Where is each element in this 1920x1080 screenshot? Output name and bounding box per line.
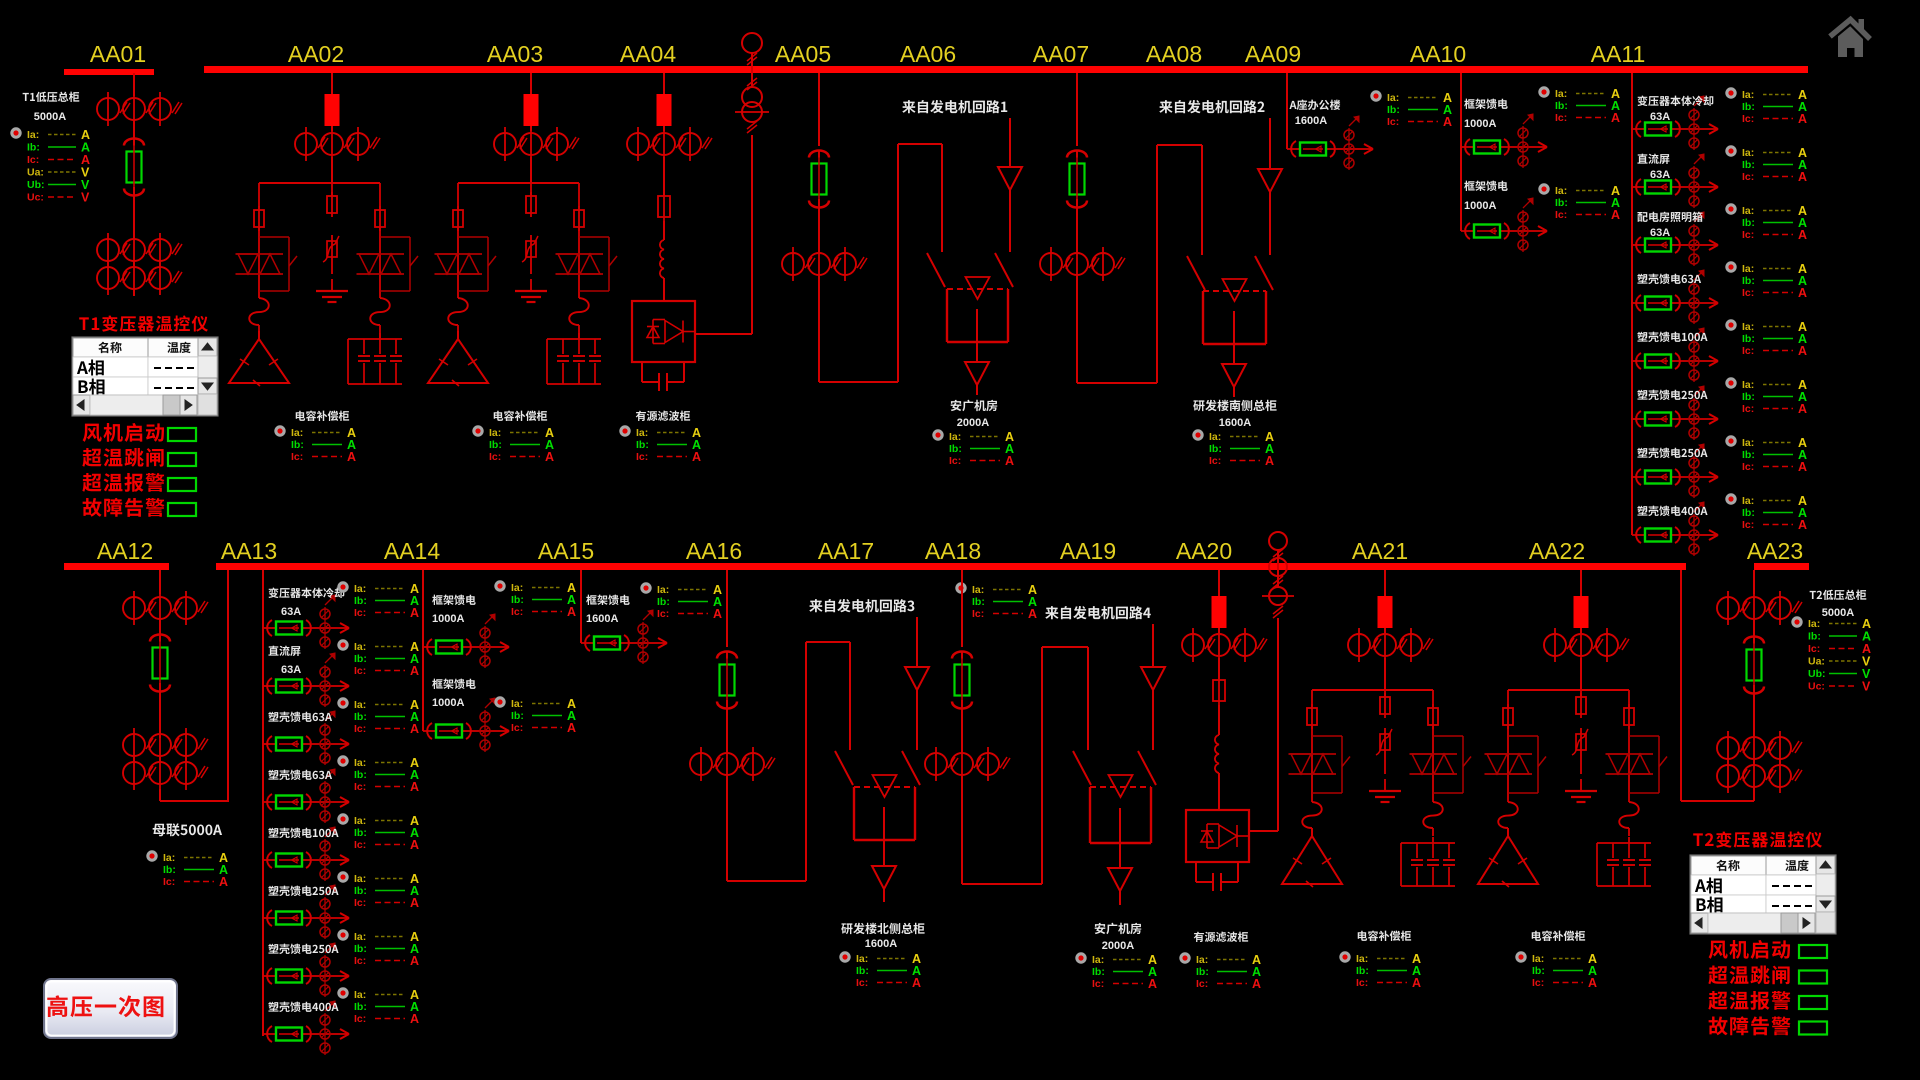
bus AA23 section: [1754, 563, 1809, 570]
svg-text:A: A: [692, 450, 701, 464]
svg-text:A: A: [1412, 976, 1421, 990]
bypass link AA21 left: [1312, 736, 1350, 793]
thyristor valve AA02 right: [357, 254, 405, 274]
CT group AA12 mid: [123, 728, 208, 762]
wire AA20: [1218, 658, 1220, 680]
svg-text:Ib:: Ib:: [1742, 217, 1755, 229]
feeder switch AA13 b5: [263, 827, 349, 881]
measurement cluster AA11 b2: [1725, 145, 1807, 184]
fuse link AA21 right: [1423, 802, 1443, 828]
CT group AA23 lower: [1717, 759, 1802, 793]
label 塑壳馈电250A: [268, 886, 338, 896]
svg-text:Ia:: Ia:: [1742, 379, 1754, 391]
svg-text:A: A: [1265, 454, 1274, 468]
surge arrester AA22 mid: [1572, 728, 1588, 758]
CT group AA04: [627, 127, 712, 161]
wire AA05: [818, 199, 820, 252]
arrow generator2: [1258, 169, 1282, 192]
bypass link AA02 left: [259, 237, 297, 291]
measurement cluster AA22: [1515, 951, 1597, 990]
wire AA16: [726, 700, 728, 752]
svg-text:Ia:: Ia:: [1555, 185, 1567, 197]
svg-text:1000A: 1000A: [1464, 118, 1496, 130]
svg-text:AA12: AA12: [97, 538, 153, 564]
svg-text:Ia:: Ia:: [1092, 954, 1104, 966]
feeder switch AA14 b2: [423, 698, 509, 752]
svg-text:Ia:: Ia:: [1555, 88, 1567, 100]
svg-text:AA17: AA17: [818, 538, 874, 564]
CT group AA18: [925, 747, 1010, 781]
svg-text:Ib:: Ib:: [354, 653, 367, 665]
measurement cluster AA10 b1: [1538, 86, 1620, 125]
thyristor valve AA02 left: [236, 254, 284, 274]
wire AA09 drop: [1286, 73, 1288, 149]
left branch tail AA22: [1507, 828, 1509, 836]
wire AA17 out: [883, 889, 885, 902]
svg-text:Ib:: Ib:: [1742, 449, 1755, 461]
svg-text:A: A: [1798, 460, 1807, 474]
dc capacitor AA04: [642, 362, 684, 391]
svg-text:AA22: AA22: [1529, 538, 1585, 564]
circuit breaker (open) AA12: [150, 634, 170, 695]
CT group AA01 mid: [97, 233, 182, 267]
switch blade AA09 right: [1255, 256, 1273, 290]
svg-text:Ib:: Ib:: [1742, 101, 1755, 113]
circuit breaker (closed) AA22: [1574, 596, 1589, 628]
wire PT to filter bottom: [1249, 830, 1278, 832]
wire AA20 drop: [1218, 570, 1220, 596]
wire AA20: [1218, 628, 1220, 633]
fuse AA21 left: [1307, 704, 1317, 729]
measurement cluster AA20: [1179, 952, 1261, 991]
mid branch tail AA22: [1580, 758, 1582, 774]
measurement cluster AA13 b8: [337, 987, 419, 1026]
label 直流屏: [1637, 154, 1669, 164]
svg-text:Ib:: Ib:: [511, 594, 524, 606]
label A座办公楼: [1289, 100, 1340, 111]
svg-text:AA01: AA01: [90, 41, 146, 67]
label 塑壳馈电250A: [1637, 390, 1707, 400]
fuse AA22 mid: [1576, 693, 1586, 718]
bus AA01 section: [64, 69, 154, 75]
label 框架馈电 AA10b1: [1464, 99, 1508, 109]
bus main bottom AA13-AA22: [216, 563, 1686, 570]
thyristor valve AA03 left: [435, 254, 483, 274]
svg-text:Ib:: Ib:: [1742, 159, 1755, 171]
CT group AA21: [1348, 628, 1433, 662]
bypass link AA22 left: [1508, 736, 1546, 793]
svg-text:Ia:: Ia:: [511, 698, 523, 710]
alarm 超温报警 T1: [82, 473, 196, 492]
svg-text:A: A: [713, 607, 722, 621]
feeder switch AA11 b8: [1632, 502, 1718, 556]
svg-text:Ib:: Ib:: [636, 439, 649, 451]
label T2低压总柜: [1810, 590, 1867, 600]
right branch AA03: [578, 183, 580, 298]
svg-text:Ic:: Ic:: [1742, 345, 1754, 357]
wire AA04: [663, 157, 665, 196]
wire AA17 out: [883, 807, 885, 866]
measurement cluster AA11 b8: [1725, 493, 1807, 532]
feeder switch AA11 b4: [1632, 270, 1718, 324]
fuse link AA02 left: [249, 298, 269, 325]
surge arrester AA03 mid: [522, 235, 538, 265]
circuit breaker (closed) AA21: [1378, 596, 1393, 628]
svg-text:Ia:: Ia:: [1196, 954, 1208, 966]
svg-text:A: A: [410, 664, 419, 678]
svg-text:Ic:: Ic:: [856, 977, 868, 989]
mid branch tail AA02: [331, 265, 333, 274]
svg-text:AA16: AA16: [686, 538, 742, 564]
svg-text:Ic:: Ic:: [1742, 403, 1754, 415]
svg-text:Ia:: Ia:: [489, 427, 501, 439]
svg-text:63A: 63A: [1650, 227, 1670, 239]
svg-text:AA19: AA19: [1060, 538, 1116, 564]
CT group AA03: [494, 127, 579, 161]
label 有源滤波柜 AA04: [636, 411, 690, 421]
wire AA07: [1076, 199, 1078, 252]
capacitor bank AA22 right: [1597, 837, 1651, 886]
CT group AA16: [690, 747, 775, 781]
fuse AA20: [1213, 676, 1225, 705]
svg-text:A: A: [912, 976, 921, 990]
svg-text:Ic:: Ic:: [511, 722, 523, 734]
feeder switch AA14 b1: [423, 614, 509, 668]
surge arrester AA02 mid: [323, 235, 339, 265]
arrow generator3: [905, 667, 929, 690]
wire AA16 drop: [726, 570, 728, 647]
arrow generator4: [1141, 667, 1165, 690]
right branch tail AA21: [1432, 828, 1434, 836]
wire AA16 loop: [727, 642, 850, 881]
svg-text:Ic:: Ic:: [1356, 977, 1368, 989]
voltage transformer column AA20/AA21: [1262, 532, 1294, 618]
label 电容补偿柜 AA03: [494, 411, 547, 421]
fuse AA02 mid: [327, 192, 337, 217]
wire PT to filter: [695, 333, 752, 335]
ground AA21 mid: [1369, 779, 1401, 802]
mid branch AA21: [1384, 690, 1386, 697]
wire AA19 out: [1119, 891, 1121, 905]
measurement cluster AA13 b3: [337, 697, 419, 736]
branch bar AA21: [1312, 689, 1433, 691]
svg-text:Ia:: Ia:: [27, 129, 39, 141]
circuit breaker (closed) AA04: [657, 94, 672, 126]
feeder switch AA11 b2: [1632, 154, 1718, 208]
switch blade AA19 left: [1073, 751, 1091, 785]
svg-text:Ib:: Ib:: [1742, 333, 1755, 345]
alarm 超温报警 T2: [1708, 991, 1827, 1010]
wire AA02: [331, 157, 333, 183]
svg-text:Ic:: Ic:: [354, 897, 366, 909]
left branch tail AA03: [457, 325, 459, 339]
alarm 故障告警 T2: [1709, 1016, 1827, 1035]
svg-text:Ib:: Ib:: [1808, 631, 1821, 643]
feeder switch AA09 A座办公楼: [1287, 116, 1373, 170]
label 塑壳馈电250A: [268, 944, 338, 954]
capacitor bank AA03 right: [547, 333, 601, 384]
svg-text:Ia:: Ia:: [1742, 263, 1754, 275]
fuse AA22 left: [1503, 704, 1513, 729]
wire AA22: [1580, 628, 1582, 633]
svg-text:Ia:: Ia:: [657, 584, 669, 596]
svg-text:5000A: 5000A: [1822, 607, 1854, 619]
label 来自发电机回路3: [809, 599, 914, 612]
measurement cluster AA10 b2: [1538, 183, 1620, 222]
svg-text:Ia:: Ia:: [163, 852, 175, 864]
svg-text:Ib:: Ib:: [354, 769, 367, 781]
svg-text:Ia:: Ia:: [291, 427, 303, 439]
svg-text:Ic:: Ic:: [972, 608, 984, 620]
svg-text:Ic:: Ic:: [657, 608, 669, 620]
svg-text:A: A: [1798, 344, 1807, 358]
svg-text:Ic:: Ic:: [1555, 112, 1567, 124]
branch bar AA22: [1508, 689, 1629, 691]
feeder switch AA13 b4: [263, 769, 349, 823]
svg-text:Uc:: Uc:: [1808, 681, 1825, 693]
thyristor valve AA21 right: [1410, 754, 1458, 774]
svg-text:Ic:: Ic:: [1387, 116, 1399, 128]
measurement cluster AA13 b2: [337, 639, 419, 678]
circuit breaker (open) AA16: [717, 651, 737, 712]
feeder switch AA13 b1: [263, 595, 349, 649]
CT group AA20: [1182, 628, 1267, 662]
svg-text:AA03: AA03: [487, 41, 543, 67]
svg-text:Ib:: Ib:: [1532, 965, 1545, 977]
wire AA21 drop: [1384, 570, 1386, 596]
ground AA03 mid: [515, 279, 547, 302]
alarm 超温跳闸 T2: [1708, 966, 1827, 985]
mid branch tail AA21: [1384, 758, 1386, 774]
fuse link AA02 right: [370, 298, 390, 325]
left branch tail AA21: [1311, 828, 1313, 836]
measurement cluster AA11 b1: [1725, 87, 1807, 126]
svg-text:A: A: [1148, 977, 1157, 991]
fuse link AA22 left: [1498, 802, 1518, 828]
measurement cluster AA16 in: [640, 582, 722, 621]
wire generator4: [1152, 690, 1154, 750]
wire AA22: [1580, 658, 1582, 690]
svg-text:Ic:: Ic:: [949, 455, 961, 467]
wire AA01: [133, 187, 135, 240]
circuit breaker (open) AA01: [124, 138, 144, 199]
alarm 故障告警 T1: [83, 498, 196, 517]
svg-text:Ib:: Ib:: [657, 596, 670, 608]
svg-text:1600A: 1600A: [586, 613, 618, 625]
svg-text:Ic:: Ic:: [1742, 287, 1754, 299]
alarm 风机启动 T1: [83, 423, 196, 442]
fuse link AA22 right: [1619, 802, 1639, 828]
label 安广机房: [951, 400, 998, 411]
right branch AA22: [1628, 690, 1630, 802]
svg-text:Ia:: Ia:: [511, 582, 523, 594]
svg-text:5000A: 5000A: [34, 111, 66, 123]
svg-text:Ia:: Ia:: [1742, 205, 1754, 217]
fuse link AA03 left: [448, 298, 468, 325]
feeder switch AA13 b7: [263, 943, 349, 997]
delta winding AA22 left: [1478, 828, 1538, 887]
arrow AA09 out: [1222, 364, 1246, 387]
svg-text:Ia:: Ia:: [1356, 953, 1368, 965]
label 塑壳馈电63A: [268, 712, 332, 722]
svg-text:AA08: AA08: [1146, 41, 1202, 67]
CT group AA23 upper: [1717, 591, 1802, 625]
wire AA07 drop: [1076, 73, 1078, 146]
label 有源滤波柜 AA20: [1194, 932, 1248, 942]
fuse AA03 right: [574, 206, 584, 231]
svg-text:Ia:: Ia:: [1387, 92, 1399, 104]
svg-text:Ic:: Ic:: [1532, 977, 1544, 989]
label 塑壳馈电400A: [1637, 506, 1707, 516]
svg-text:A: A: [1252, 977, 1261, 991]
svg-text:Ib:: Ib:: [354, 595, 367, 607]
wire AA23 loop: [1681, 570, 1754, 801]
delta winding AA03 left: [428, 331, 488, 386]
dc capacitor AA20: [1196, 862, 1238, 891]
wire AA09 out: [1233, 387, 1235, 397]
svg-text:Ic:: Ic:: [354, 665, 366, 677]
label 塑壳馈电100A: [1637, 332, 1707, 342]
switch blade AA06 right: [995, 253, 1013, 287]
svg-text:Ia:: Ia:: [1742, 89, 1754, 101]
svg-text:Ic:: Ic:: [511, 606, 523, 618]
svg-text:Ic:: Ic:: [1092, 978, 1104, 990]
svg-text:A: A: [567, 721, 576, 735]
transfer switch cabinet AA17: [854, 775, 915, 840]
wire AA23: [1753, 685, 1755, 736]
label 来自发电机回路1: [902, 100, 1007, 113]
svg-text:1600A: 1600A: [1219, 417, 1251, 429]
circuit breaker (open) AA07: [1067, 150, 1087, 211]
measurement cluster AA11 b5: [1725, 319, 1807, 358]
svg-text:Ic:: Ic:: [27, 154, 39, 166]
wire AA01 tail: [133, 289, 135, 296]
feeder switch AA13 b6: [263, 885, 349, 939]
measurement cluster AA21: [1339, 951, 1421, 990]
svg-text:Ia:: Ia:: [1742, 147, 1754, 159]
label 塑壳馈电100A: [268, 828, 338, 838]
bypass link AA22 right: [1629, 736, 1667, 793]
svg-text:1000A: 1000A: [1464, 200, 1496, 212]
bus main top AA02-AA11: [204, 66, 1808, 73]
label 变压器本体冷却: [1637, 96, 1713, 106]
wire AA05 loop: [819, 144, 942, 382]
thyristor valve AA22 right: [1606, 754, 1654, 774]
svg-text:Ub:: Ub:: [1808, 668, 1826, 680]
wire AA03 drop: [530, 73, 532, 94]
svg-text:Ia:: Ia:: [354, 641, 366, 653]
svg-text:A: A: [219, 875, 228, 889]
wire AA21: [1384, 628, 1386, 633]
svg-text:Ia:: Ia:: [1742, 437, 1754, 449]
svg-text:Ib:: Ib:: [1196, 966, 1209, 978]
circuit breaker (open) AA23: [1744, 636, 1764, 697]
measurement cluster AA23: [1791, 616, 1871, 693]
measurement cluster AA06: [932, 429, 1014, 468]
switch blade AA17 right: [902, 751, 920, 785]
mid branch AA03: [530, 183, 532, 196]
delta winding AA02 left: [229, 331, 289, 386]
svg-text:A: A: [410, 896, 419, 910]
svg-text:Ib:: Ib:: [1555, 100, 1568, 112]
label 来自发电机回路2: [1159, 100, 1264, 113]
svg-text:A: A: [410, 606, 419, 620]
measurement cluster AA19 out: [1075, 952, 1157, 991]
svg-text:1000A: 1000A: [432, 613, 464, 625]
svg-text:Ic:: Ic:: [163, 876, 175, 888]
capacitor bank AA21 right: [1401, 837, 1455, 886]
measurement cluster AA14 b1: [494, 580, 576, 619]
svg-text:A: A: [1798, 170, 1807, 184]
svg-text:A: A: [545, 450, 554, 464]
svg-text:Ia:: Ia:: [972, 584, 984, 596]
fuse AA02 right: [375, 206, 385, 231]
circuit breaker (closed) AA02: [325, 94, 340, 126]
wire AA06 out: [976, 309, 978, 362]
wire PT drop bottom: [1277, 618, 1279, 831]
svg-text:Ib:: Ib:: [354, 711, 367, 723]
fuse link AA21 left: [1302, 802, 1322, 828]
wire AA19 out: [1119, 808, 1121, 868]
wire AA04 drop: [663, 73, 665, 94]
measurement cluster AA13 b6: [337, 871, 419, 910]
svg-text:V: V: [1862, 680, 1871, 694]
svg-text:AA21: AA21: [1352, 538, 1408, 564]
measurement cluster AA11 b7: [1725, 435, 1807, 474]
label 变压器本体冷却: [268, 588, 344, 598]
label 安广机房 AA19: [1095, 923, 1142, 934]
feeder switch AA10 b2: [1461, 198, 1547, 252]
CT group AA12 lower: [123, 756, 208, 790]
feeder switch AA13 b8: [263, 1001, 349, 1055]
fuse AA22 right: [1624, 704, 1634, 729]
right branch tail AA02: [379, 325, 381, 339]
feeder switch AA13 b2: [263, 653, 349, 707]
ground AA02 mid: [316, 279, 348, 302]
wire AA09 out: [1233, 311, 1235, 364]
svg-text:Ic:: Ic:: [354, 607, 366, 619]
svg-text:AA10: AA10: [1410, 41, 1466, 67]
svg-text:Ic:: Ic:: [1196, 978, 1208, 990]
bypass link AA02 right: [380, 237, 418, 291]
wire PT drop: [751, 135, 753, 334]
svg-text:Ic:: Ic:: [354, 955, 366, 967]
svg-text:Ib:: Ib:: [163, 864, 176, 876]
svg-text:Ic:: Ic:: [1808, 643, 1820, 655]
svg-text:A: A: [1005, 454, 1014, 468]
wire AA18 drop: [961, 570, 963, 647]
svg-text:Ib:: Ib:: [511, 710, 524, 722]
wire AA21: [1384, 658, 1386, 690]
svg-text:Ia:: Ia:: [1742, 321, 1754, 333]
label 配电房照明箱: [1637, 212, 1702, 222]
svg-text:Ia:: Ia:: [1532, 953, 1544, 965]
svg-text:AA13: AA13: [221, 538, 277, 564]
right branch AA02: [379, 183, 381, 298]
wire AA12: [159, 620, 161, 640]
svg-text:Ia:: Ia:: [354, 815, 366, 827]
feeder switch AA15: [581, 610, 667, 664]
svg-text:AA09: AA09: [1245, 41, 1301, 67]
fuse AA21 right: [1428, 704, 1438, 729]
feeder switch AA11 b3: [1632, 212, 1718, 266]
CT group AA05: [782, 247, 867, 281]
svg-text:Ic:: Ic:: [1742, 113, 1754, 125]
svg-text:Ic:: Ic:: [1742, 171, 1754, 183]
svg-text:A: A: [1588, 976, 1597, 990]
measurement cluster AA03: [472, 425, 554, 464]
svg-text:A: A: [1798, 286, 1807, 300]
